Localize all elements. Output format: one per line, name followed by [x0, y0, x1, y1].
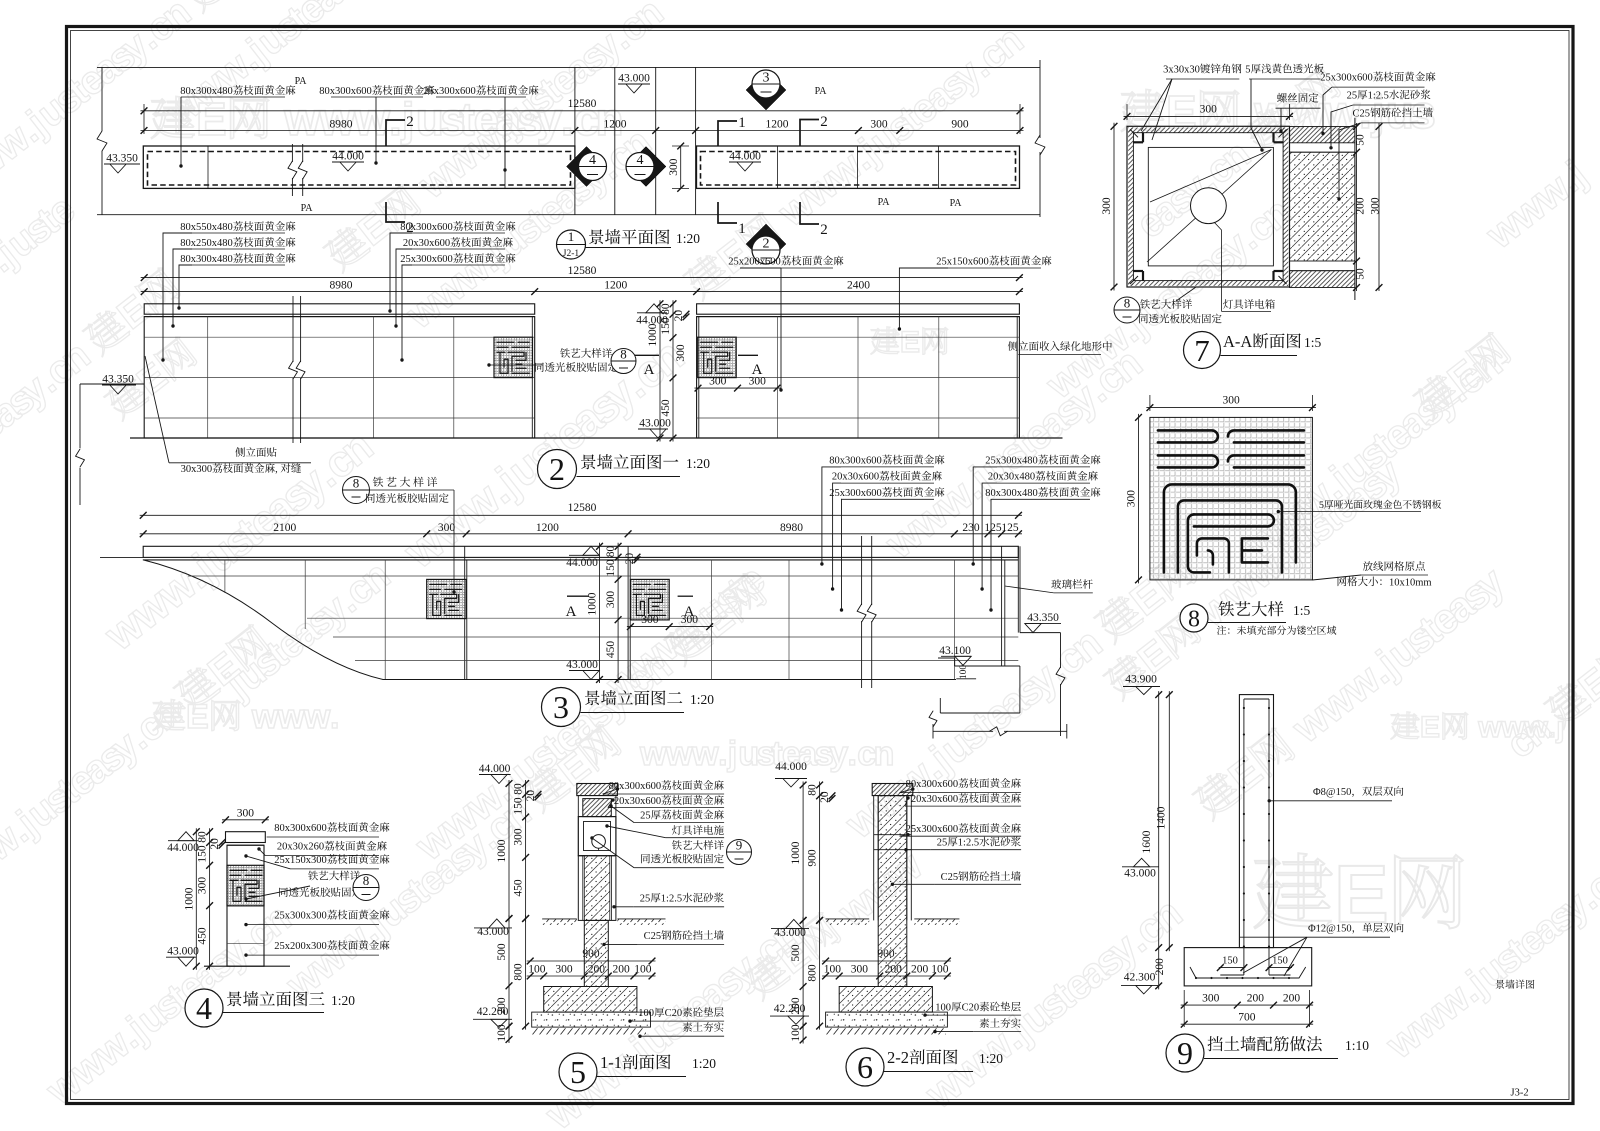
elev1 title: [538, 450, 577, 489]
plan section cut 1 top: [718, 121, 737, 146]
sec2-2 wall skins and core: [872, 795, 913, 797]
plan left boundary vertical with break: [101, 67, 103, 131]
svg-text:500: 500: [790, 944, 802, 962]
sec2-2 footing: [839, 987, 932, 1013]
plan dim row 8980/1200/1200/300/900: [141, 130, 1024, 132]
svg-text:25x300x600: 25x300x600: [423, 86, 476, 97]
svg-text:1:2.5: 1:2.5: [661, 894, 682, 905]
elev1 level 44.000: [646, 304, 662, 313]
ironart label grid origin: [1363, 561, 1425, 571]
sheet number J3-2: [1511, 1088, 1529, 1099]
svg-text:50: 50: [1355, 268, 1367, 280]
elev2 level 44.000: [583, 546, 599, 555]
svg-text:80: 80: [660, 303, 672, 315]
A-A lightbox outer frame: [1127, 126, 1290, 287]
rebar vertical dims: [1158, 691, 1160, 989]
A-A corner angle marks: [1133, 141, 1143, 143]
sec1-1 lamp box: [578, 817, 616, 856]
plan wall segment 2 outline: [697, 146, 1020, 188]
elev1 note 侧立面贴: [235, 447, 276, 457]
svg-text:C25: C25: [644, 931, 662, 942]
elev2 right railing 玻璃栏杆: [1001, 546, 1003, 666]
A-A title: [1184, 332, 1221, 369]
sec2-2 level 42.200: [774, 1003, 806, 1015]
sec2-2 cushion: [826, 1012, 948, 1027]
plan title bubble: [557, 230, 586, 259]
svg-text:100: 100: [790, 1024, 802, 1042]
svg-text:y: y: [537, 93, 563, 145]
svg-text:300: 300: [870, 119, 888, 131]
svg-text:100: 100: [959, 665, 969, 680]
sec2-2 vertical dim chains: [802, 782, 804, 924]
sec1-1 footing dims: [527, 960, 656, 962]
A-A wall: stone band top: [1290, 127, 1355, 143]
plan section cut 2 top (left): [386, 120, 405, 146]
rebar level 42.300: [1124, 972, 1156, 984]
rebar footing outline: [1184, 948, 1312, 986]
elev3 level 43.000: [178, 957, 194, 966]
elev2 top label block right: [985, 455, 1100, 467]
elev2 level 43.000: [583, 671, 599, 680]
elev1 note 侧立面收入绿化地形中: [1008, 341, 1112, 351]
svg-text:J2-1: J2-1: [563, 249, 580, 259]
ironart dim 300 top: [1146, 407, 1316, 409]
sec2-2 coping hatched: [872, 784, 913, 796]
svg-text:43.350: 43.350: [106, 153, 138, 165]
plan PA labels: [295, 76, 308, 87]
plan left extension ticks: [143, 104, 145, 134]
svg-text:20x30x600: 20x30x600: [614, 796, 661, 807]
A-A lamp circle: [1191, 188, 1227, 224]
elev1 dim 12580: [141, 277, 1023, 279]
svg-text:8: 8: [353, 476, 360, 491]
svg-text:300: 300: [605, 591, 617, 609]
sec1-1 labels right: [609, 780, 724, 792]
svg-text:2: 2: [549, 451, 565, 487]
svg-text:44.000: 44.000: [566, 557, 598, 569]
rebar wall inner bars with dots: [1243, 699, 1245, 975]
sec1-1 lamp circle: [592, 835, 606, 849]
svg-text:43.000: 43.000: [167, 946, 199, 958]
svg-text:1000: 1000: [183, 887, 195, 910]
rebar title: [1166, 1034, 1204, 1072]
svg-text:t: t: [460, 93, 475, 145]
plan section cut 2 top (right): [800, 120, 819, 147]
elev1 wall A body: [144, 317, 535, 438]
svg-text:4: 4: [637, 153, 644, 168]
svg-text:900: 900: [807, 849, 819, 867]
elev2 label ref bubble 8 with leader: [343, 477, 370, 504]
rebar wall bar hooks 150: [1220, 974, 1244, 976]
elev2 iron square right: [630, 579, 669, 620]
svg-text:43.100: 43.100: [939, 645, 971, 657]
elev3 dim 300: [222, 819, 269, 821]
sec2-2 rammed earth hatch: [826, 1027, 946, 1035]
plan view boundary lines: [97, 66, 1040, 68]
svg-text:80x300x600: 80x300x600: [829, 456, 882, 467]
elev2 verticals right part: [710, 560, 712, 680]
sec1-1 buried wall: [584, 920, 608, 986]
svg-text:44.000: 44.000: [479, 763, 511, 775]
svg-text:150: 150: [605, 559, 617, 577]
svg-text:150: 150: [1222, 956, 1238, 967]
plan wall segment 1 joints: [207, 146, 209, 188]
svg-text:25: 25: [937, 838, 948, 849]
plan label 80x300x600: [319, 85, 434, 97]
plan section cut 2 bottom (right): [800, 202, 819, 224]
svg-text:PA: PA: [295, 76, 308, 87]
elev1 label 25x150x600: [936, 256, 1051, 268]
svg-text:42.300: 42.300: [1124, 972, 1156, 984]
elev2 top label block left: [829, 455, 944, 467]
svg-text:300: 300: [513, 828, 525, 846]
ironart maze pattern: [1158, 430, 1304, 572]
svg-text:800: 800: [513, 963, 525, 981]
svg-text:1400: 1400: [1156, 806, 1168, 829]
svg-text:200: 200: [1283, 992, 1301, 1004]
elev3 level 44.000: [178, 832, 194, 841]
svg-text:25x200x300: 25x200x300: [274, 941, 327, 952]
svg-text:200: 200: [911, 964, 929, 976]
svg-text:10x10mm: 10x10mm: [1389, 577, 1432, 588]
svg-text:300: 300: [197, 877, 209, 895]
svg-text:3: 3: [763, 71, 770, 86]
svg-text:C25: C25: [1353, 108, 1371, 119]
svg-text:300: 300: [237, 807, 255, 819]
svg-text:1000: 1000: [587, 592, 599, 615]
svg-text:4: 4: [196, 990, 212, 1026]
elev2 break mark: [861, 536, 863, 605]
plan view symbol 2: [746, 224, 786, 264]
svg-text:w: w: [277, 698, 305, 736]
elev2 A letters: [678, 595, 693, 597]
svg-text:20x30x600: 20x30x600: [911, 794, 958, 805]
svg-text:8: 8: [1124, 296, 1131, 311]
plan wall segment 2 joints: [777, 146, 779, 188]
A-A translucent panel inner square: [1148, 147, 1273, 266]
svg-text:200: 200: [613, 964, 631, 976]
svg-text:2: 2: [820, 114, 828, 130]
A-A right dims 50/200/50 and 300: [1356, 123, 1358, 291]
elev2 step 43.100: [938, 657, 955, 659]
svg-text:230: 230: [962, 522, 980, 534]
elev2 title: [542, 688, 581, 727]
svg-text:900: 900: [582, 948, 600, 960]
svg-text:9: 9: [736, 838, 743, 853]
svg-text:300: 300: [641, 614, 659, 626]
svg-text:300: 300: [1101, 197, 1113, 215]
plan wall break mark: [292, 143, 302, 145]
svg-text:1:5: 1:5: [1293, 603, 1311, 618]
sheet name 景墙详图: [1496, 980, 1535, 989]
svg-text:y: y: [829, 735, 848, 773]
svg-text:1:2.5: 1:2.5: [958, 838, 979, 849]
svg-text:J3-2: J3-2: [1511, 1088, 1529, 1099]
svg-text:300: 300: [749, 376, 767, 388]
svg-text:Φ12@150: Φ12@150: [1308, 924, 1352, 935]
svg-text:150: 150: [660, 317, 672, 335]
svg-text:3: 3: [553, 689, 569, 725]
svg-text:8980: 8980: [330, 119, 353, 131]
elev1 wall B coping: [697, 304, 1020, 314]
svg-text:44.000: 44.000: [167, 842, 199, 854]
svg-text:300: 300: [1126, 490, 1138, 508]
plan level 44.000 segment2: [737, 162, 753, 171]
svg-text:8: 8: [363, 873, 370, 888]
svg-text:.: .: [848, 735, 857, 773]
svg-text:2: 2: [820, 222, 828, 238]
svg-text:2100: 2100: [273, 522, 296, 534]
plan level 43.000: [626, 84, 642, 93]
elev1 level 43.000: [650, 429, 666, 438]
svg-text:1200: 1200: [766, 119, 789, 131]
svg-text:8: 8: [620, 347, 627, 362]
sec1-1 footing: [544, 987, 637, 1013]
svg-text:25x200x600: 25x200x600: [728, 257, 781, 268]
svg-text:E: E: [196, 93, 227, 145]
A-A panel diagonals: [1150, 150, 1271, 203]
svg-text:Φ8@150: Φ8@150: [1313, 787, 1351, 798]
svg-text:j: j: [1555, 711, 1564, 744]
svg-text:200: 200: [1355, 197, 1367, 215]
elev2 wall B edges: [464, 546, 466, 679]
svg-text:300: 300: [1223, 395, 1241, 407]
elev1 label block left: [180, 221, 295, 233]
svg-text:E: E: [1420, 711, 1440, 744]
svg-text:8980: 8980: [330, 280, 353, 292]
svg-text:300: 300: [851, 964, 869, 976]
svg-text:1200: 1200: [536, 522, 559, 534]
svg-text:900: 900: [877, 948, 895, 960]
svg-text:100: 100: [638, 1008, 654, 1019]
svg-text:2-2: 2-2: [887, 1048, 909, 1067]
svg-text:1: 1: [738, 115, 746, 131]
svg-text:125: 125: [1001, 522, 1019, 534]
plan level 43.350: [110, 164, 126, 173]
svg-text:80: 80: [807, 784, 819, 796]
elev3 iron square: [227, 865, 264, 906]
svg-text:100: 100: [931, 964, 949, 976]
elev3 column body: [227, 845, 264, 966]
svg-text:300: 300: [1370, 197, 1382, 215]
A-A wall face line: [1354, 118, 1356, 300]
svg-text:450: 450: [605, 641, 617, 659]
svg-text:80: 80: [197, 831, 209, 843]
elev2 dim 12580: [140, 514, 1022, 516]
svg-text:300: 300: [709, 376, 727, 388]
svg-text:w: w: [1477, 711, 1502, 744]
sec1-1 reveal 20x30: [578, 795, 616, 797]
svg-text:1:20: 1:20: [979, 1051, 1003, 1066]
A-A left dim 300: [1113, 123, 1115, 291]
svg-text:25x300x600: 25x300x600: [906, 824, 959, 835]
svg-text:A-A: A-A: [1223, 332, 1252, 351]
svg-text:6: 6: [857, 1049, 873, 1085]
elev2 bottom datum line with break: [933, 730, 993, 732]
svg-text:300: 300: [668, 158, 680, 176]
svg-text:20: 20: [209, 838, 221, 850]
svg-text:43.000: 43.000: [1124, 868, 1156, 880]
svg-text:w: w: [251, 698, 279, 736]
svg-text:w: w: [691, 735, 719, 773]
elev1 iron detail ref bubble: [489, 364, 543, 366]
svg-text:1000: 1000: [790, 841, 802, 864]
sec1-1 vertical dim chains: [508, 780, 510, 922]
svg-text:25x300x480: 25x300x480: [985, 456, 1037, 467]
svg-text:1000: 1000: [496, 839, 508, 862]
elev1 iron square A: [494, 337, 533, 377]
svg-text:450: 450: [660, 399, 672, 417]
svg-text:25x300x600: 25x300x600: [829, 488, 882, 499]
svg-text:1: 1: [568, 229, 575, 244]
svg-text:1000: 1000: [647, 323, 659, 346]
svg-text:80x300x600: 80x300x600: [319, 86, 372, 97]
svg-text:1:20: 1:20: [331, 993, 355, 1008]
svg-text:1:2.5: 1:2.5: [1368, 91, 1389, 102]
elev2 dim 300+300 under iron: [627, 626, 713, 628]
svg-text:43.350: 43.350: [102, 374, 134, 386]
elev1 left boundary drop line: [79, 384, 81, 448]
svg-text:C20: C20: [962, 1003, 980, 1014]
sec2-2 level 44.000 marker: [775, 761, 807, 773]
sec1-1 title: [559, 1053, 597, 1091]
sec1-1 level 42.200: [477, 1006, 509, 1018]
elev1 wall A coping: [144, 304, 535, 314]
rebar level 43.900: [1125, 674, 1157, 686]
svg-text:300: 300: [1200, 104, 1218, 116]
svg-text:44.000: 44.000: [775, 761, 807, 773]
sec2-2 labels right: [906, 778, 1021, 790]
svg-text:100: 100: [528, 964, 546, 976]
elev3 labels: [274, 822, 389, 834]
svg-text:80x300x480: 80x300x480: [180, 254, 233, 265]
svg-text:80: 80: [605, 545, 617, 557]
elev2 coping slab: [143, 546, 1018, 557]
elev1 wall A break mark: [292, 296, 294, 362]
svg-text:20x30x260: 20x30x260: [277, 842, 324, 853]
svg-text:C20: C20: [665, 1008, 683, 1019]
svg-text:E: E: [900, 326, 920, 359]
sec1-1 rammed earth hatch: [532, 1027, 646, 1035]
elev2 wall left verticals above curve: [224, 560, 226, 593]
rebar footing bottom bar: [1190, 967, 1306, 978]
A-A bottom labels: [1114, 297, 1140, 323]
svg-text:PA: PA: [950, 198, 963, 209]
A-A wall: concrete: [1290, 152, 1355, 261]
svg-text:12580: 12580: [568, 502, 597, 514]
svg-text:C25: C25: [941, 872, 959, 883]
svg-text:PA: PA: [815, 86, 828, 97]
svg-text:100: 100: [935, 1003, 951, 1014]
svg-text:25x300x600: 25x300x600: [1320, 73, 1373, 84]
svg-text:1:20: 1:20: [686, 456, 710, 471]
svg-text:42.200: 42.200: [477, 1006, 509, 1018]
sec1-1 lower stone courses: [578, 856, 616, 921]
svg-text:2400: 2400: [847, 280, 870, 292]
svg-text:1200: 1200: [604, 119, 627, 131]
svg-text:100: 100: [824, 964, 842, 976]
svg-text:100: 100: [634, 964, 652, 976]
plan view symbol 4 left: [567, 147, 607, 187]
svg-text:20: 20: [673, 310, 685, 322]
svg-text:25x300x600: 25x300x600: [400, 254, 453, 265]
elev2 horizontal joints: [188, 575, 1018, 577]
svg-text:20: 20: [525, 790, 537, 802]
svg-text:w: w: [639, 735, 667, 773]
elev1 vertical dims: [659, 300, 661, 441]
A-A top labels: [1163, 64, 1241, 76]
elev1 ground line: [130, 437, 1063, 439]
elev1 wall B joints: [697, 336, 1020, 338]
sec1-1 coping hatched: [577, 784, 618, 796]
svg-text:12580: 12580: [568, 265, 597, 277]
svg-text:.: .: [389, 93, 402, 145]
svg-text:20x30x480: 20x30x480: [988, 472, 1035, 483]
plan dim 12580: [141, 110, 1024, 112]
elev1 wall A joints: [144, 336, 535, 338]
svg-text:700: 700: [1238, 1011, 1256, 1023]
svg-text:.: .: [1548, 711, 1556, 744]
elev1 dim 300+300 under iron B: [695, 387, 781, 389]
watermark layer: [0, 0, 287, 208]
svg-text:43.000: 43.000: [618, 73, 650, 85]
svg-text:150: 150: [197, 845, 209, 863]
svg-text:9: 9: [1177, 1035, 1193, 1071]
ironart label steel plate: [1319, 500, 1441, 511]
elev3 vertical dims: [195, 828, 197, 970]
svg-text:s: s: [1410, 86, 1436, 138]
svg-text:150: 150: [1272, 956, 1288, 967]
svg-text:w: w: [665, 735, 693, 773]
sec2-2 title: [846, 1048, 884, 1086]
svg-text:300: 300: [438, 522, 456, 534]
svg-text:.: .: [330, 698, 339, 736]
svg-text:300: 300: [675, 344, 687, 362]
sec1-1 cushion: [532, 1012, 651, 1027]
sec1-1 ground hatch: [542, 919, 577, 925]
ironart grid square: [1150, 417, 1313, 580]
svg-text:j: j: [727, 735, 737, 773]
elev1 iron square B: [698, 337, 737, 377]
svg-text:1200: 1200: [604, 280, 627, 292]
svg-text:20x30x600: 20x30x600: [403, 238, 450, 249]
elev1 dim row 8980/1200/2400: [141, 291, 1023, 293]
plan section cut 1 bottom: [718, 202, 737, 223]
svg-text:80x550x480: 80x550x480: [180, 222, 233, 233]
svg-text:25: 25: [1347, 91, 1358, 102]
plan label 25x300x600: [423, 85, 538, 97]
svg-text:1-1: 1-1: [600, 1053, 622, 1072]
elev2 left ground line 43.350: [100, 556, 143, 558]
svg-text:1:20: 1:20: [690, 692, 714, 707]
svg-text:25x150x300: 25x150x300: [274, 855, 327, 866]
elev1 wall B body: [697, 317, 1020, 438]
svg-text:3x30x30: 3x30x30: [1163, 65, 1200, 76]
svg-text:80x300x600: 80x300x600: [274, 823, 327, 834]
plan gap paving verticals: [574, 67, 576, 214]
svg-text:25: 25: [640, 811, 651, 822]
plan title text: [589, 229, 669, 244]
plan wall width dim 300: [680, 146, 682, 188]
svg-text:5: 5: [1319, 500, 1324, 511]
plan section cut 2 bottom (left): [386, 202, 405, 222]
elev1 label block right: [400, 221, 515, 233]
A-A wall: mortar gap: [1290, 151, 1355, 153]
svg-text:E: E: [186, 698, 209, 736]
svg-text:42.200: 42.200: [774, 1003, 806, 1015]
plan view symbol 3: [746, 70, 786, 110]
svg-text:80x300x480: 80x300x480: [985, 488, 1037, 499]
